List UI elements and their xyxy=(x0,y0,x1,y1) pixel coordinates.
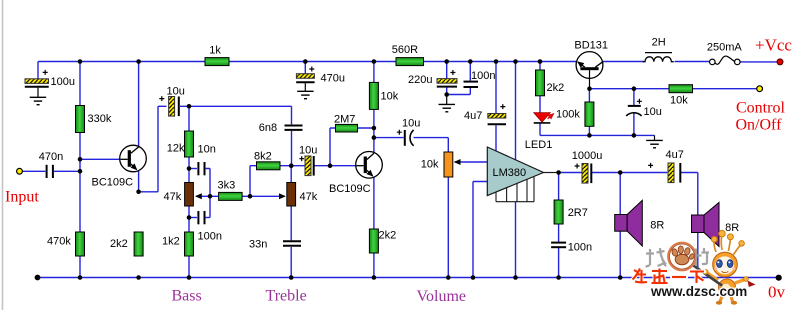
svg-text:560R: 560R xyxy=(392,44,418,56)
svg-text:BD131: BD131 xyxy=(574,40,608,52)
node zobel/rail xyxy=(556,275,561,280)
svg-text:330k: 330k xyxy=(88,113,112,125)
node pin14/rail xyxy=(513,59,518,64)
wire LM380 lower input xyxy=(473,182,487,278)
node speaker2/rail xyxy=(696,275,701,280)
wire LM380 output node xyxy=(559,172,582,174)
capacitor C 33n xyxy=(283,241,301,246)
capacitor C 10n xyxy=(198,162,204,175)
node Q1 base upper xyxy=(78,157,83,162)
svg-text:47k: 47k xyxy=(164,191,182,203)
wire zobel branch xyxy=(558,173,560,278)
svg-text:100n: 100n xyxy=(198,231,222,243)
potentiometer VR 47k treble xyxy=(287,183,296,207)
node BD131 base xyxy=(587,86,592,91)
wire volume wiper to LM380 input xyxy=(455,161,488,163)
node comb gnd/rail xyxy=(513,275,518,280)
node 470k/rail xyxy=(78,275,83,280)
svg-text:250mA: 250mA xyxy=(707,42,743,54)
capacitor C 1000u electrolytic xyxy=(575,164,592,184)
node LM380 in/rail xyxy=(471,275,476,280)
resistor R 2k2 (Q1 emitter) xyxy=(134,232,143,256)
svg-text:On/Off: On/Off xyxy=(736,117,783,134)
wire bottom 0v rail xyxy=(38,277,779,279)
wire LED cathode to gnd line xyxy=(540,124,655,136)
capacitor C 4u7 output xyxy=(648,163,680,183)
node 10u ctl bottom xyxy=(632,133,637,138)
svg-text:1k: 1k xyxy=(209,45,221,57)
capacitor C 10u control electrolytic xyxy=(626,99,642,116)
watermark text weiku red xyxy=(633,269,705,284)
svg-text:2R7: 2R7 xyxy=(568,207,588,219)
capacitor C 100n supply xyxy=(464,82,479,87)
wire fuse to +Vcc terminal xyxy=(741,61,778,63)
wire treble wiper xyxy=(250,195,285,197)
wire Q1 base tap xyxy=(80,158,121,160)
node volume/rail xyxy=(446,275,451,280)
node 10n left xyxy=(187,166,192,171)
node 100n/rail xyxy=(468,59,473,64)
node speaker1 top xyxy=(618,170,623,175)
svg-text:10u: 10u xyxy=(167,86,185,98)
wire 4u7 bypass branch xyxy=(495,62,497,152)
speaker LS2 8R xyxy=(692,203,720,247)
resistor R 1k2 xyxy=(185,232,194,256)
wire node to 4u7 out xyxy=(620,172,667,174)
inductor L 2H xyxy=(643,53,674,62)
wire 100n left xyxy=(189,217,197,219)
potentiometer VR 10k volume xyxy=(444,152,453,177)
capacitor C 470u electrolytic xyxy=(296,62,314,91)
svg-text:Treble: Treble xyxy=(266,288,307,305)
wire Q2 collector branch x373.9 xyxy=(373,62,375,278)
wire 10n left xyxy=(189,168,197,170)
svg-text:33n: 33n xyxy=(249,239,267,251)
junction dots top rail xyxy=(78,59,637,220)
watermark mascot body xyxy=(694,230,756,304)
wire speaker1 branch xyxy=(619,173,621,278)
svg-text:10u: 10u xyxy=(644,106,662,118)
diode LED1 xyxy=(534,113,554,123)
resistor R 470k xyxy=(76,232,85,256)
node Q1 emitter xyxy=(136,190,141,195)
op-amp U1 LM380 xyxy=(487,147,543,196)
wire LM380 pin14 xyxy=(515,62,517,160)
svg-text:Volume: Volume xyxy=(417,288,466,305)
wire 8k2 to 10u mid xyxy=(280,165,305,167)
svg-text:BC109C: BC109C xyxy=(92,177,134,189)
wire 100k vertical xyxy=(588,89,590,136)
wire inductor to fuse xyxy=(675,61,710,63)
resistor R 2M7 xyxy=(336,124,358,132)
svg-text:Bass: Bass xyxy=(172,288,202,305)
svg-text:2k2: 2k2 xyxy=(110,238,128,250)
resistor R 3k3 xyxy=(219,192,243,200)
svg-text:LED1: LED1 xyxy=(525,139,553,151)
transistor Q2 BC109C xyxy=(356,152,383,179)
wire 3k3 to treble wiper node xyxy=(242,195,250,197)
svg-text:470u: 470u xyxy=(321,73,345,85)
resistor R 2k2 LED feed xyxy=(536,70,545,96)
node LM380 output xyxy=(556,170,561,175)
node treble wiper xyxy=(248,194,253,199)
svg-text:4u7: 4u7 xyxy=(666,149,684,161)
wire Q1 emitter to 10u coupling xyxy=(139,106,167,192)
svg-text:8R: 8R xyxy=(725,222,739,234)
node 470u/rail xyxy=(303,59,308,64)
svg-text:6n8: 6n8 xyxy=(259,122,277,134)
capacitor C 4u7 bypass xyxy=(488,104,506,124)
svg-text:+Vcc: +Vcc xyxy=(755,36,792,55)
terminal control xyxy=(757,86,763,92)
wire Q2 out to 10u coupling xyxy=(374,137,404,139)
potentiometer VR 47k bass xyxy=(185,183,194,207)
wire 6n8 down to treble node xyxy=(291,131,293,166)
capacitor C 10u output coupling xyxy=(397,130,414,146)
capacitor C 100n zobel xyxy=(551,243,566,248)
svg-text:100n: 100n xyxy=(568,242,592,254)
wire 100n right xyxy=(206,217,210,219)
node 100n left xyxy=(187,215,192,220)
wire treble pot vertical xyxy=(290,166,292,278)
wire 10u ctl branch xyxy=(633,89,635,136)
wire 1000u to speaker1 node xyxy=(592,172,620,174)
resistor R 10k Q2 load xyxy=(369,82,378,109)
fuse F1 250mA xyxy=(709,56,740,65)
svg-text:47k: 47k xyxy=(300,191,318,203)
node 2k2 Q2/rail xyxy=(372,275,377,280)
wire 8k2 riser xyxy=(250,166,257,197)
capacitor C 10u bass coupling xyxy=(159,96,179,116)
wire 470n to base node xyxy=(54,170,80,172)
svg-text:10u: 10u xyxy=(402,118,420,130)
svg-text:2k2: 2k2 xyxy=(379,230,397,242)
resistor R 2R7 xyxy=(554,200,563,224)
resistor R 330k xyxy=(76,106,85,133)
resistor R 2k2 Q2 emitter xyxy=(369,229,378,253)
svg-text:2H: 2H xyxy=(652,37,666,49)
watermark char zhao xyxy=(646,248,667,267)
terminal 0v left end xyxy=(35,275,41,281)
wire top supply rail xyxy=(38,61,576,63)
svg-text:3k3: 3k3 xyxy=(218,180,236,192)
node 2k2/rail xyxy=(136,275,141,280)
svg-text:470k: 470k xyxy=(47,236,71,248)
wire 220u branch xyxy=(446,62,448,95)
svg-text:1000u: 1000u xyxy=(572,150,603,162)
wire 2M7 right lead xyxy=(358,127,374,129)
resistor R 560R xyxy=(396,58,424,66)
svg-text:8k2: 8k2 xyxy=(254,151,272,163)
node 220u gnd xyxy=(444,92,449,97)
wire 330k/470k branch x80 xyxy=(79,62,81,278)
wire bass wiper xyxy=(196,195,210,197)
wire rail BD131 to inductor xyxy=(603,61,644,63)
node 2M7 right xyxy=(372,126,377,131)
terminal input xyxy=(17,168,23,174)
wire 100u feed xyxy=(37,62,39,79)
resistor R 8k2 xyxy=(257,162,281,170)
resistor R 12k xyxy=(185,131,194,157)
speaker LS1 8R xyxy=(615,200,643,246)
ground below 10u ctl xyxy=(646,135,663,147)
node Q1 base lower xyxy=(78,169,83,174)
resistor R 10k control xyxy=(669,85,693,93)
wire LM380 output lead xyxy=(544,172,559,174)
svg-text:10k: 10k xyxy=(421,159,439,171)
ground below 100u xyxy=(30,97,47,104)
wire volume pot bottom xyxy=(447,177,449,278)
svg-text:www.dzsc.com: www.dzsc.com xyxy=(650,284,747,299)
svg-text:BC109C: BC109C xyxy=(329,183,371,195)
svg-text:Control: Control xyxy=(736,100,785,117)
capacitor C 100n bass xyxy=(198,211,204,224)
svg-text:Input: Input xyxy=(5,189,39,206)
node 10u bass out xyxy=(187,104,192,109)
svg-text:10n: 10n xyxy=(198,144,216,156)
svg-text:100k: 100k xyxy=(556,109,580,121)
resistor R 1k xyxy=(205,58,229,66)
svg-text:8R: 8R xyxy=(650,220,664,232)
wire input to 470n xyxy=(22,170,45,172)
node Q1 collector/rail xyxy=(136,59,141,64)
left page border line xyxy=(2,0,4,310)
wire 2k2 LED branch xyxy=(539,62,541,113)
wire 100n top branch xyxy=(447,62,471,95)
watermark magnifier with paw xyxy=(668,243,696,271)
node bass wiper xyxy=(208,194,213,199)
watermark char pian xyxy=(696,248,709,266)
svg-text:LM380: LM380 xyxy=(493,167,527,179)
svg-text:1k2: 1k2 xyxy=(162,236,180,248)
svg-text:10u: 10u xyxy=(299,145,317,157)
svg-text:470n: 470n xyxy=(39,151,63,163)
capacitor C 470n xyxy=(47,165,53,178)
wire 10u bass node to 6n8 xyxy=(180,106,292,124)
resistor R 100k xyxy=(585,102,594,126)
terminal 0v right end xyxy=(776,275,782,281)
wire Q1 collector/emitter vertical xyxy=(138,62,140,192)
svg-text:10k: 10k xyxy=(670,95,688,107)
wire 2M7 left riser xyxy=(330,128,336,166)
wire LM380 ground comb to rail xyxy=(515,202,517,278)
svg-text:2k2: 2k2 xyxy=(547,82,565,94)
capacitor C 10u mid electrolytic xyxy=(299,156,313,176)
capacitor C 6n8 xyxy=(285,126,303,130)
node 2k2LED/rail xyxy=(538,59,543,64)
node 100k bottom xyxy=(587,133,592,138)
node 33n/rail xyxy=(289,275,294,280)
svg-text:100u: 100u xyxy=(51,76,75,88)
svg-text:0v: 0v xyxy=(768,283,786,302)
wire 4u7 to speaker2 xyxy=(681,173,698,278)
wire 10n right to wiper node xyxy=(206,169,210,218)
svg-text:12k: 12k xyxy=(167,143,185,155)
node Q2 base xyxy=(328,163,333,168)
transistor Q3 BD131 xyxy=(576,52,603,89)
node Q2 collector out xyxy=(372,135,377,140)
svg-text:100n: 100n xyxy=(471,70,495,82)
transistor Q1 BC109C xyxy=(120,145,147,172)
svg-text:220u: 220u xyxy=(408,74,432,86)
node treble top xyxy=(289,163,294,168)
wire control line xyxy=(590,88,757,90)
LM380 ground pin comb xyxy=(496,177,534,202)
wire 10u mid to Q2 base xyxy=(314,165,357,167)
ground below 470u xyxy=(297,91,313,98)
svg-text:10k: 10k xyxy=(381,91,399,103)
svg-text:4u7: 4u7 xyxy=(464,110,482,122)
capacitor C 100u electrolytic xyxy=(25,70,49,97)
ground below 220u xyxy=(439,95,456,112)
node speaker1/rail xyxy=(618,275,623,280)
wire 10u out to volume pot xyxy=(414,138,449,152)
node 10k/rail xyxy=(372,59,377,64)
node 220u/rail xyxy=(444,59,449,64)
node 1k2/rail xyxy=(187,275,192,280)
node 4u7/rail xyxy=(494,59,499,64)
junction dots bottom rail xyxy=(35,275,782,281)
wire bass chain x189 xyxy=(188,106,190,277)
terminal +Vcc xyxy=(777,59,783,65)
node 10u ctl top xyxy=(632,86,637,91)
capacitor C 220u electrolytic xyxy=(437,70,457,87)
svg-text:2M7: 2M7 xyxy=(334,114,355,126)
node 330k/rail xyxy=(78,59,83,64)
wire wiper node to 3k3 xyxy=(210,195,219,197)
